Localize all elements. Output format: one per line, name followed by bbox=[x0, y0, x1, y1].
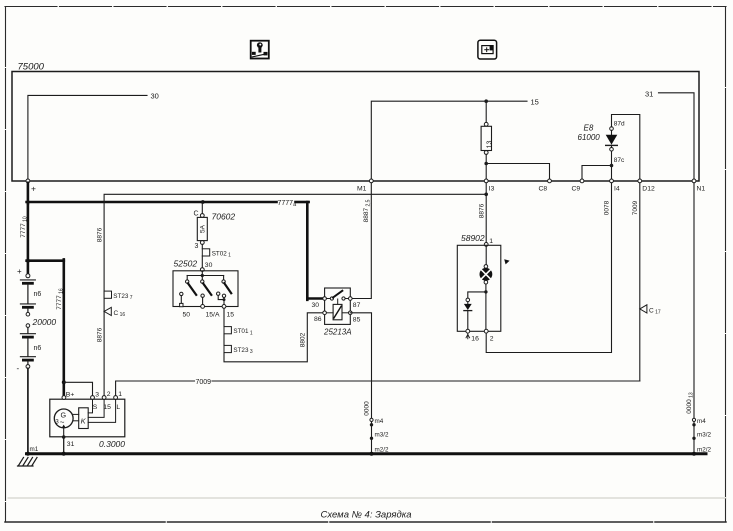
svg-text:-: - bbox=[17, 364, 20, 373]
svg-text:5A: 5A bbox=[199, 224, 206, 233]
wire 7009 vertical to D12 bbox=[639, 183, 641, 381]
svg-text:C 17: C 17 bbox=[649, 307, 661, 315]
svg-text:87: 87 bbox=[353, 302, 361, 309]
svg-text:Схема № 4: Зарядка: Схема № 4: Зарядка bbox=[321, 510, 412, 521]
svg-text:2: 2 bbox=[107, 391, 111, 398]
svg-text:8876: 8876 bbox=[96, 327, 103, 342]
node M1 bbox=[357, 179, 373, 193]
wire to switch terminal 30 bbox=[201, 256, 203, 268]
warning lamp unit 58902 bbox=[457, 243, 501, 339]
svg-text:D12: D12 bbox=[642, 186, 655, 193]
svg-text:70602: 70602 bbox=[212, 211, 236, 221]
svg-text:30: 30 bbox=[151, 92, 159, 101]
wire 8876 I3 to lamp bbox=[485, 183, 487, 243]
connector ST01 1 bbox=[224, 327, 253, 337]
connector C 17 bbox=[640, 305, 661, 316]
svg-text:n6: n6 bbox=[34, 291, 42, 298]
battery 20000 bbox=[17, 267, 57, 373]
node C9 bbox=[572, 179, 584, 193]
svg-text:52502: 52502 bbox=[174, 259, 198, 269]
svg-text:8876: 8876 bbox=[96, 227, 103, 242]
svg-text:m1: m1 bbox=[30, 446, 39, 453]
svg-text:15: 15 bbox=[103, 404, 111, 411]
svg-text:87c: 87c bbox=[614, 157, 625, 164]
wire 0078 lamp 2 to I4 bbox=[486, 183, 611, 353]
svg-text:I4: I4 bbox=[614, 186, 620, 193]
svg-text:8887 2,5: 8887 2,5 bbox=[363, 199, 371, 222]
junction 87c bbox=[610, 164, 614, 168]
connector ST23 7 bbox=[104, 291, 133, 301]
wire 8887 M1 to relay 87 bbox=[350, 183, 371, 299]
svg-text:m4: m4 bbox=[697, 418, 706, 425]
fuse 13 bbox=[481, 101, 493, 163]
svg-text:3: 3 bbox=[55, 419, 59, 426]
battery icon bbox=[478, 40, 497, 59]
svg-text:S: S bbox=[93, 404, 98, 411]
connector C 16 bbox=[104, 307, 125, 318]
diode E8 61000 bbox=[578, 121, 626, 165]
wire gen 31 to ground bbox=[63, 437, 65, 453]
svg-text:7777a: 7777a bbox=[278, 200, 298, 208]
svg-text:25213A: 25213A bbox=[323, 327, 352, 336]
wire to I3 bbox=[485, 164, 487, 179]
svg-text:86: 86 bbox=[314, 316, 322, 323]
ignition key icon bbox=[251, 41, 269, 59]
wire 7777a thick bus bbox=[27, 183, 324, 300]
svg-text:ST02 1: ST02 1 bbox=[212, 250, 231, 258]
svg-text:8802: 8802 bbox=[300, 332, 307, 347]
svg-text:3: 3 bbox=[195, 243, 199, 250]
svg-text:B+: B+ bbox=[66, 391, 75, 398]
wire 7009 bus bbox=[116, 381, 640, 397]
svg-text:61000: 61000 bbox=[578, 133, 601, 142]
svg-text:ST23 7: ST23 7 bbox=[113, 293, 132, 301]
relay 25213A bbox=[323, 288, 352, 324]
svg-text:E8: E8 bbox=[584, 124, 594, 133]
node I4 bbox=[610, 179, 620, 193]
node I3 bbox=[484, 179, 494, 193]
mark 4 bbox=[504, 259, 509, 264]
ground symbol bbox=[18, 458, 38, 467]
svg-text:0.3000: 0.3000 bbox=[99, 439, 125, 449]
wire between connectors bbox=[223, 334, 225, 346]
node D12 bbox=[638, 179, 655, 193]
svg-text:3: 3 bbox=[95, 391, 99, 398]
ignition switch 52502 bbox=[173, 268, 238, 309]
wire 15 down from switch bbox=[223, 308, 225, 326]
svg-text:1: 1 bbox=[489, 238, 493, 245]
svg-text:85: 85 bbox=[353, 316, 361, 323]
wire 15 bbox=[371, 101, 527, 179]
svg-text:15: 15 bbox=[227, 311, 235, 318]
wire 30 bbox=[28, 95, 147, 178]
svg-text:58902: 58902 bbox=[461, 233, 485, 243]
svg-text:C8: C8 bbox=[539, 186, 548, 193]
svg-text:m3/2: m3/2 bbox=[375, 432, 389, 439]
svg-text:16: 16 bbox=[471, 336, 479, 343]
svg-text:m3/2: m3/2 bbox=[697, 432, 711, 439]
svg-text:50: 50 bbox=[183, 311, 191, 318]
svg-text:87d: 87d bbox=[614, 121, 625, 128]
wire 85 to ground stack bbox=[350, 313, 371, 453]
svg-text:30: 30 bbox=[312, 302, 320, 309]
fuse 70602 5A bbox=[194, 202, 236, 250]
node N1 bbox=[692, 179, 705, 193]
connector ST02 1 bbox=[202, 249, 231, 259]
svg-text:1: 1 bbox=[118, 391, 122, 398]
junction gen 31 bbox=[62, 435, 66, 439]
wire 8802 bbox=[224, 313, 325, 362]
svg-text:ST01 1: ST01 1 bbox=[233, 328, 252, 336]
svg-text:m4: m4 bbox=[375, 418, 384, 425]
svg-text:30: 30 bbox=[205, 262, 213, 269]
svg-text:ST23 3: ST23 3 bbox=[233, 347, 252, 355]
junction 8876 meets lamp feed bbox=[484, 193, 488, 197]
junction on wire 15 bbox=[484, 99, 488, 103]
svg-text:0078: 0078 bbox=[604, 200, 611, 215]
wire 87d to D12 bbox=[612, 115, 640, 179]
wire 8876 (left) bbox=[104, 194, 486, 397]
battery negative wire to ground bus bbox=[27, 368, 29, 452]
node C8 bbox=[539, 179, 552, 193]
svg-text:L: L bbox=[116, 404, 120, 411]
junction below fuse 13 bbox=[484, 162, 488, 166]
svg-text:2: 2 bbox=[490, 336, 494, 343]
svg-text:15/A: 15/A bbox=[206, 311, 220, 318]
svg-text:8876: 8876 bbox=[478, 203, 485, 218]
harness box 75000 bbox=[12, 62, 699, 182]
wire 31 bbox=[645, 89, 694, 179]
svg-text:M1: M1 bbox=[357, 186, 367, 193]
connector ST23 3 bbox=[224, 345, 253, 355]
junction battery on bus bbox=[26, 452, 30, 456]
ground bus m1 bbox=[27, 452, 707, 455]
generator 0.3000 bbox=[50, 396, 125, 437]
junction gen on bus bbox=[62, 452, 66, 456]
svg-text:31: 31 bbox=[645, 89, 653, 98]
svg-text:31: 31 bbox=[67, 441, 75, 448]
svg-text:I3: I3 bbox=[489, 186, 495, 193]
wire N1 to ground stack bbox=[693, 183, 695, 453]
junction B+ branch bbox=[62, 380, 66, 384]
node + (terminal on box edge) bbox=[26, 179, 36, 194]
svg-text:7009: 7009 bbox=[632, 200, 639, 215]
svg-text:15: 15 bbox=[531, 97, 539, 106]
wire to C8 bbox=[486, 164, 549, 179]
svg-text:n6: n6 bbox=[34, 345, 42, 352]
svg-text:+: + bbox=[31, 184, 36, 194]
svg-text:0000 13: 0000 13 bbox=[686, 392, 694, 414]
svg-text:75000: 75000 bbox=[18, 62, 45, 73]
junction battery branch bbox=[26, 259, 30, 263]
svg-text:0000: 0000 bbox=[364, 401, 371, 416]
ground stack m4 m3/2 m2/2 (right) bbox=[692, 418, 711, 456]
junction fuse C on bus bbox=[201, 200, 205, 204]
battery feed wire 7777 bbox=[27, 202, 64, 397]
svg-text:C 16: C 16 bbox=[114, 310, 126, 318]
svg-text:+: + bbox=[17, 267, 22, 276]
svg-text:13: 13 bbox=[486, 141, 493, 149]
svg-text:7009: 7009 bbox=[196, 379, 212, 386]
svg-text:C9: C9 bbox=[572, 186, 581, 193]
svg-text:C: C bbox=[194, 210, 199, 217]
svg-text:N1: N1 bbox=[697, 186, 706, 193]
svg-text:K: K bbox=[81, 417, 87, 426]
wire 87c to C9 and I4 bbox=[582, 151, 612, 179]
ground stack m4 m3/2 m2/2 (left) bbox=[370, 418, 389, 456]
svg-text:20000: 20000 bbox=[32, 317, 57, 327]
wire branch to generator terminal 3 bbox=[64, 382, 93, 397]
